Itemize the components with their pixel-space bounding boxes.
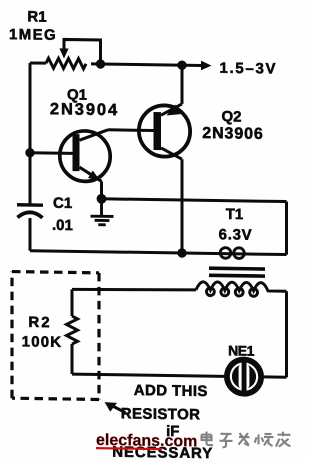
transformer T1 core bbox=[209, 268, 265, 276]
resistor R1 bbox=[46, 58, 86, 69]
arrowhead R1 wiper bbox=[59, 48, 68, 58]
resistor R2 bbox=[67, 289, 78, 374]
transformer T1 primary winding bbox=[220, 248, 244, 259]
svg-text:.01: .01 bbox=[52, 217, 73, 234]
svg-text:2N3906: 2N3906 bbox=[202, 125, 263, 143]
wire emitter node to transformer right bbox=[102, 199, 287, 202]
neon lamp NE1 bbox=[224, 356, 264, 397]
node dot supply junction bbox=[177, 60, 186, 70]
svg-text:T1: T1 bbox=[226, 206, 244, 223]
svg-text:2N3904: 2N3904 bbox=[50, 100, 119, 119]
wire Q2 collector down bbox=[181, 159, 184, 253]
wire right rail upper bbox=[285, 202, 288, 255]
wire Q1 base bbox=[30, 151, 73, 155]
svg-text:R1: R1 bbox=[27, 8, 46, 25]
dashed optional box bbox=[12, 272, 99, 400]
arrow pointing at dashed box corner bbox=[110, 405, 126, 413]
transformer T1 secondary winding bbox=[196, 282, 287, 297]
svg-text:ADD THIS: ADD THIS bbox=[134, 382, 208, 400]
transistor Q2 bbox=[139, 103, 190, 159]
svg-text:RESISTOR: RESISTOR bbox=[121, 405, 201, 423]
wire Q1 emitter down bbox=[100, 181, 103, 199]
wire R2 bottom to lamp bbox=[72, 374, 224, 376]
capacitor C1 bbox=[17, 205, 43, 218]
svg-text:NE1: NE1 bbox=[228, 342, 254, 358]
svg-text:1.5–3V: 1.5–3V bbox=[220, 60, 278, 78]
watermark chinese characters bbox=[202, 430, 291, 448]
svg-text:C1: C1 bbox=[53, 195, 72, 212]
arrowhead supply bbox=[201, 61, 212, 71]
wire R1 wiper loop bbox=[64, 39, 101, 59]
ground bbox=[91, 199, 114, 225]
wire lamp to right rail bbox=[264, 375, 287, 378]
node dot wiper junction bbox=[96, 59, 105, 69]
node dot Q1 base on left rail bbox=[25, 148, 34, 158]
svg-text:100K: 100K bbox=[22, 333, 63, 351]
wire top supply rail bbox=[30, 63, 203, 66]
node dot Q2 collector junction bbox=[177, 248, 186, 258]
watermark elecfans.com bbox=[96, 432, 197, 451]
svg-text:1MEG: 1MEG bbox=[9, 26, 57, 44]
svg-text:6.3V: 6.3V bbox=[219, 226, 253, 243]
wire R2 top to secondary bbox=[72, 288, 196, 291]
transistor Q1 bbox=[60, 129, 110, 182]
wire bottom rail to primary bbox=[30, 251, 287, 255]
wire Q1 collector to Q2 base bbox=[108, 128, 154, 132]
svg-text:Q2: Q2 bbox=[221, 108, 241, 125]
wire right rail lower bbox=[285, 291, 288, 377]
arrowhead box pointer bbox=[105, 402, 117, 412]
node dot Q1 emitter ground junction bbox=[97, 194, 107, 204]
left rail wire bbox=[29, 63, 32, 251]
svg-text:R2: R2 bbox=[28, 314, 51, 331]
wire Q2 emitter up bbox=[181, 65, 184, 104]
